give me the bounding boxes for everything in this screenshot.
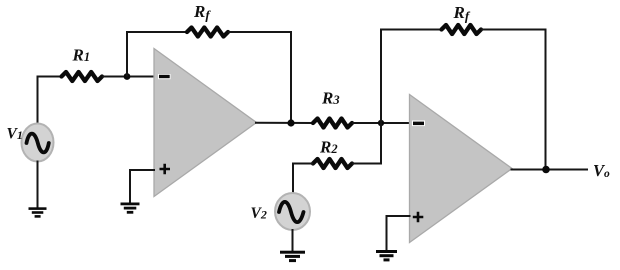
node D (output) junction dot	[542, 166, 550, 174]
wire U2 feedback left+top	[381, 30, 442, 124]
node A junction dot	[124, 73, 131, 80]
wire Rf to U1 output node	[228, 32, 291, 123]
wire R2 left down to V2	[293, 164, 313, 196]
wire V1 bottom to ground	[37, 161, 39, 209]
wire U1 feedback left+top	[127, 32, 187, 77]
wire U1 + input to ground	[130, 170, 155, 203]
U2 plus sign	[413, 212, 424, 222]
wire U2 + input to ground	[387, 216, 411, 250]
ground (U1 +)	[121, 203, 140, 214]
U1 minus sign	[158, 74, 171, 79]
op-amp U2	[410, 95, 513, 243]
wire R3 to U2 inverting input	[352, 122, 410, 124]
resistor Rf (U2 feedback)	[442, 25, 482, 34]
source V2	[275, 193, 310, 230]
ground (U2 +)	[376, 250, 397, 261]
op-amp U1	[154, 49, 257, 197]
wire node C down to R2	[380, 123, 382, 164]
ground (V2)	[280, 251, 305, 262]
wire R2 right to node C vertical	[352, 163, 382, 165]
wire Rf to U2 output node	[481, 30, 546, 170]
wire U2 output	[511, 169, 589, 171]
node C junction dot	[378, 120, 384, 126]
resistor R3	[313, 119, 352, 128]
wire R1 to U1 inverting input	[102, 76, 155, 78]
wire V1 top to R1	[38, 77, 63, 126]
U2 minus sign	[412, 121, 425, 127]
U1 plus sign	[160, 164, 171, 174]
source V1	[22, 124, 54, 162]
node B (U1 output) junction dot	[287, 119, 294, 126]
wire V2 bottom to ground	[292, 229, 294, 252]
resistor Rf (U1 feedback)	[187, 28, 228, 37]
resistor R1	[62, 72, 103, 81]
wire U1 output to R3	[255, 122, 314, 124]
svg-text:V2: V2	[251, 205, 267, 222]
ground (V1)	[29, 207, 47, 217]
resistor R2	[313, 159, 352, 168]
svg-text:V1: V1	[7, 126, 23, 143]
